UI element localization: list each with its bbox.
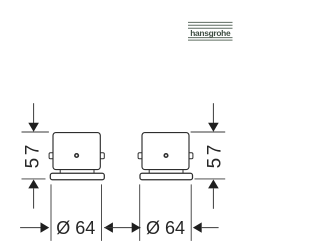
knob left base plate bbox=[50, 173, 104, 179]
dim 57 right bottom extension line bbox=[195, 178, 226, 180]
dim 57 left down arrowhead bbox=[28, 123, 39, 132]
dim O64 far-left shaft bbox=[20, 227, 41, 229]
knob left neck leg a bbox=[59, 170, 61, 174]
knob left neck leg b bbox=[93, 170, 95, 174]
svg-text:57: 57 bbox=[23, 142, 44, 168]
dim O64 far-left right arrowhead bbox=[41, 222, 50, 232]
dim 57 right down arrowhead bbox=[208, 123, 219, 132]
knob right neck leg b bbox=[182, 170, 184, 174]
knob right right ear bbox=[189, 153, 193, 159]
knob left left ear bbox=[49, 153, 53, 159]
knob left body bbox=[53, 133, 100, 170]
dim O64 far-right left arrowhead bbox=[193, 222, 202, 232]
knob left right ear bbox=[100, 153, 104, 159]
svg-text:Ø 64: Ø 64 bbox=[56, 218, 95, 238]
knob right neck leg a bbox=[148, 170, 150, 174]
dim O64 middle shaft bbox=[104, 227, 140, 229]
knob right center hole bbox=[164, 154, 168, 158]
dim 57 right up arrowhead bbox=[208, 180, 219, 189]
dim O64 extension line d bbox=[190, 184, 192, 241]
dim O64 middle left arrowhead bbox=[104, 222, 113, 232]
logo hansgrohe bbox=[188, 22, 233, 40]
dim 57 left lower shaft bbox=[33, 188, 35, 208]
svg-text:Ø 64: Ø 64 bbox=[146, 218, 185, 238]
knob right base plate bbox=[140, 173, 193, 179]
dim O64 extension line c bbox=[139, 184, 141, 241]
svg-text:57: 57 bbox=[205, 142, 226, 168]
dim 57 right upper shaft bbox=[212, 103, 214, 124]
dim 57 right lower shaft bbox=[212, 188, 214, 208]
dim O64 middle right arrowhead bbox=[132, 222, 141, 232]
knob left center hole bbox=[75, 154, 79, 158]
dim 57 left bottom extension line bbox=[22, 178, 46, 180]
dim 57 right top extension line bbox=[191, 131, 226, 133]
dim O64 extension line a bbox=[50, 184, 52, 241]
svg-text:hansgrohe: hansgrohe bbox=[190, 28, 231, 38]
dim 57 left up arrowhead bbox=[28, 180, 39, 189]
dim O64 far-right shaft bbox=[202, 227, 219, 229]
dim 57 left upper shaft bbox=[33, 103, 35, 124]
knob right left ear bbox=[138, 153, 142, 159]
dim O64 extension line b bbox=[101, 184, 103, 241]
knob right body bbox=[142, 133, 189, 170]
dim 57 left top extension line bbox=[22, 131, 49, 133]
